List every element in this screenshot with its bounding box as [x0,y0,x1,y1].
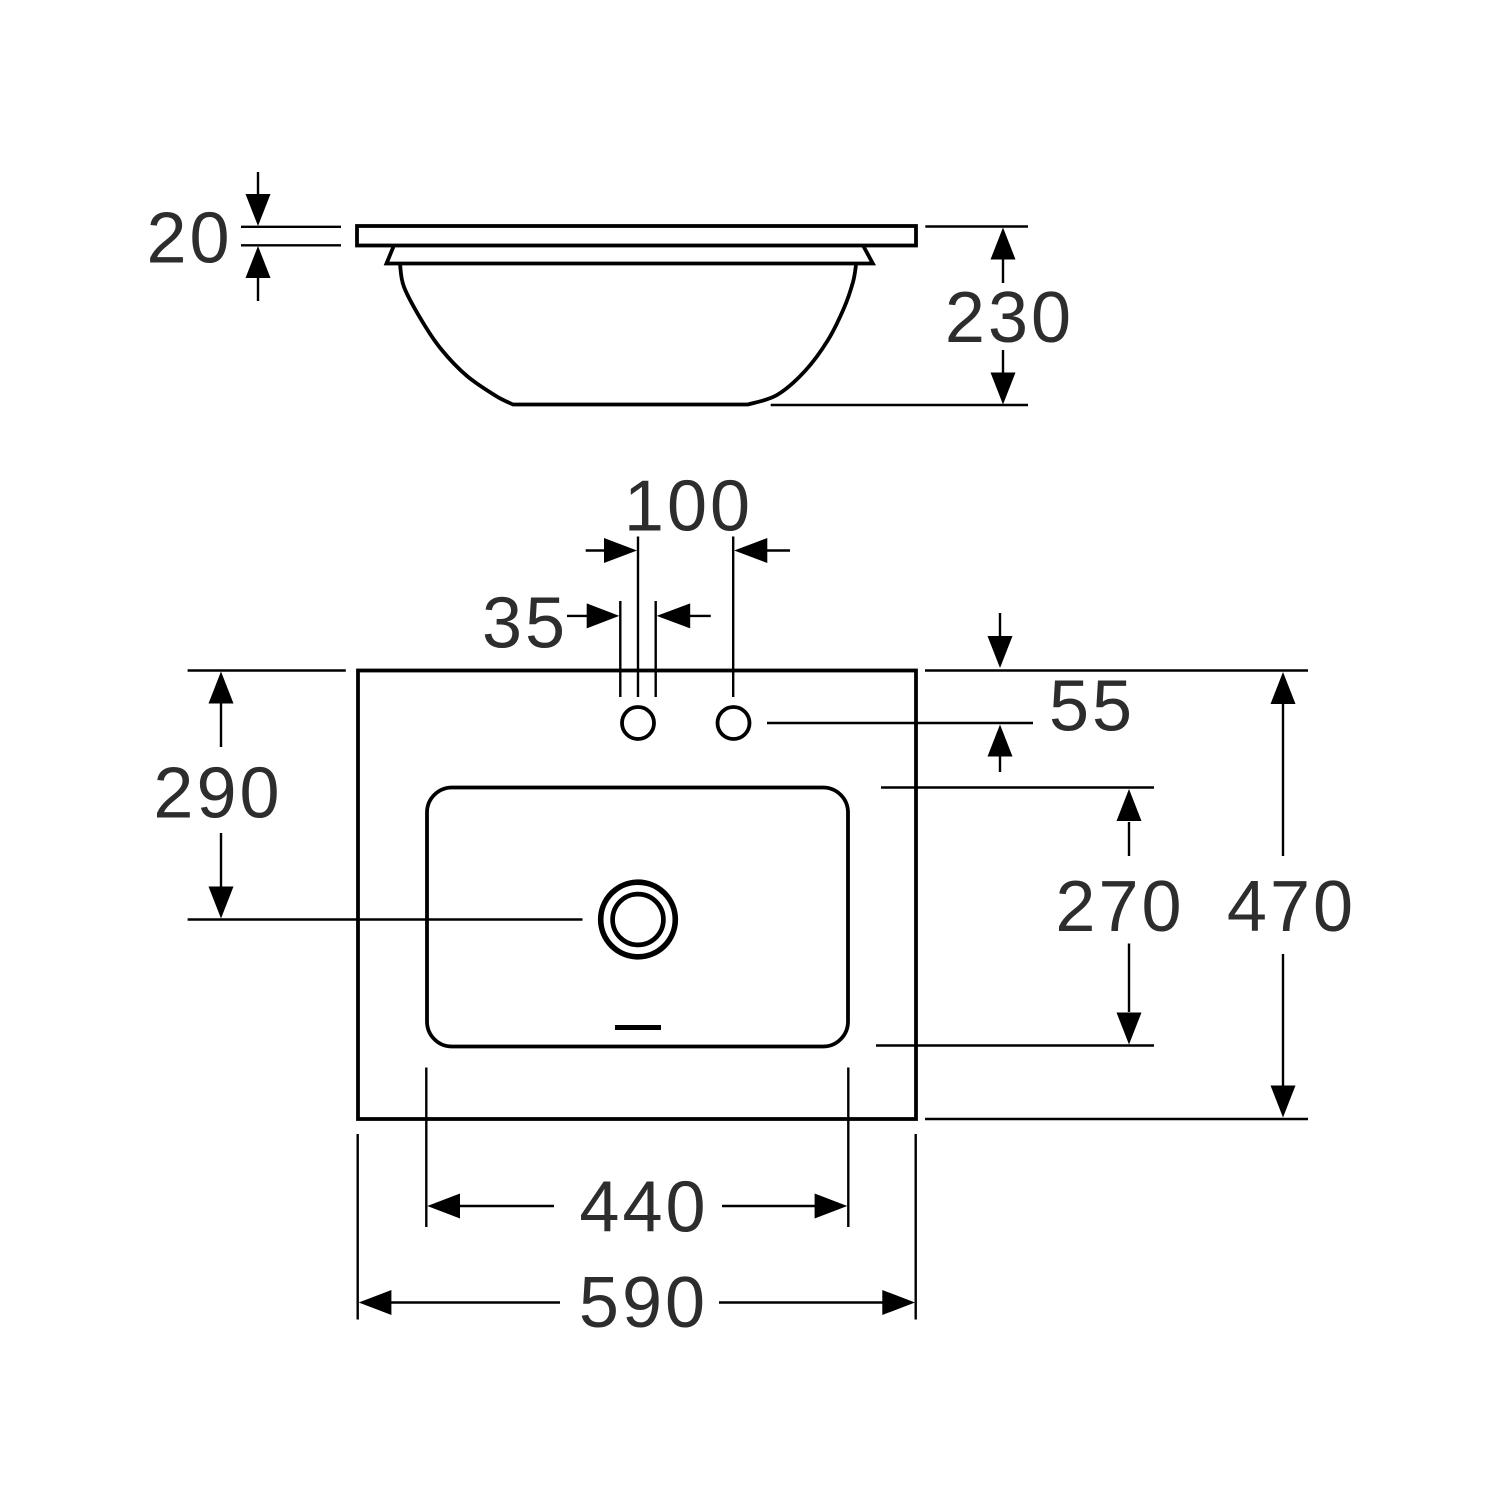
svg-text:55: 55 [1049,667,1135,747]
svg-text:470: 470 [1227,867,1356,947]
svg-text:270: 270 [1055,867,1184,947]
svg-text:440: 440 [579,1168,708,1248]
svg-text:35: 35 [482,584,568,664]
svg-text:290: 290 [153,754,282,834]
svg-text:20: 20 [146,199,232,279]
svg-text:100: 100 [624,467,753,547]
svg-text:230: 230 [945,278,1074,358]
svg-text:590: 590 [579,1263,708,1343]
